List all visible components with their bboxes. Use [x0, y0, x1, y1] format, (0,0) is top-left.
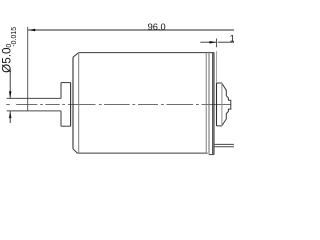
- shaft diameter dimension line upper segment: [9, 69, 11, 98]
- rear cap dimension extension line (with break): [216, 39, 218, 48]
- centerline (motor axis, dash-dot): [6, 104, 231, 106]
- brush cap outline: [217, 83, 231, 126]
- rear cap dimension line (right of extension): [218, 41, 234, 43]
- rear endbell bottom lip: [209, 154, 214, 156]
- rear cap dimension arrow (points right): [209, 41, 216, 44]
- svg-text:-0.015: -0.015: [11, 27, 18, 47]
- svg-text:96.0: 96.0: [148, 22, 166, 32]
- shaft diameter text: rotated "Ø5.0 0/-0.015": [1, 27, 18, 73]
- shaft bottom edge + extension line for diameter dim: [7, 110, 61, 112]
- rear can seam: [205, 53, 207, 154]
- rear cap dimension line (left of arrow): [200, 41, 216, 43]
- motor body outline: [73, 53, 214, 154]
- dimension 96.0 line: [28, 29, 234, 31]
- shaft top edge + extension line for diameter dim: [7, 97, 61, 99]
- dimension 96.0 left arrow: [28, 29, 35, 32]
- svg-text:13.5: 13.5: [230, 33, 234, 43]
- front endbell seam: [78, 53, 80, 154]
- brush cap tangent line: [221, 83, 223, 126]
- bearing hub: [61, 83, 71, 127]
- brush cap seam: [216, 83, 218, 126]
- shaft diameter upper arrow: [9, 91, 12, 98]
- rear endbell line: [208, 53, 210, 155]
- terminal tab: [214, 144, 234, 146]
- shaft diameter dimension line lower segment: [9, 111, 11, 123]
- shaft end face / 96.0 dimension extension line: [27, 27, 29, 111]
- rear face (dark pair): [213, 53, 214, 155]
- shaft diameter lower arrow: [9, 111, 12, 118]
- svg-text:Ø5.0: Ø5.0: [1, 47, 14, 73]
- rear cap dimension extension line lower faint segment: [216, 51, 218, 83]
